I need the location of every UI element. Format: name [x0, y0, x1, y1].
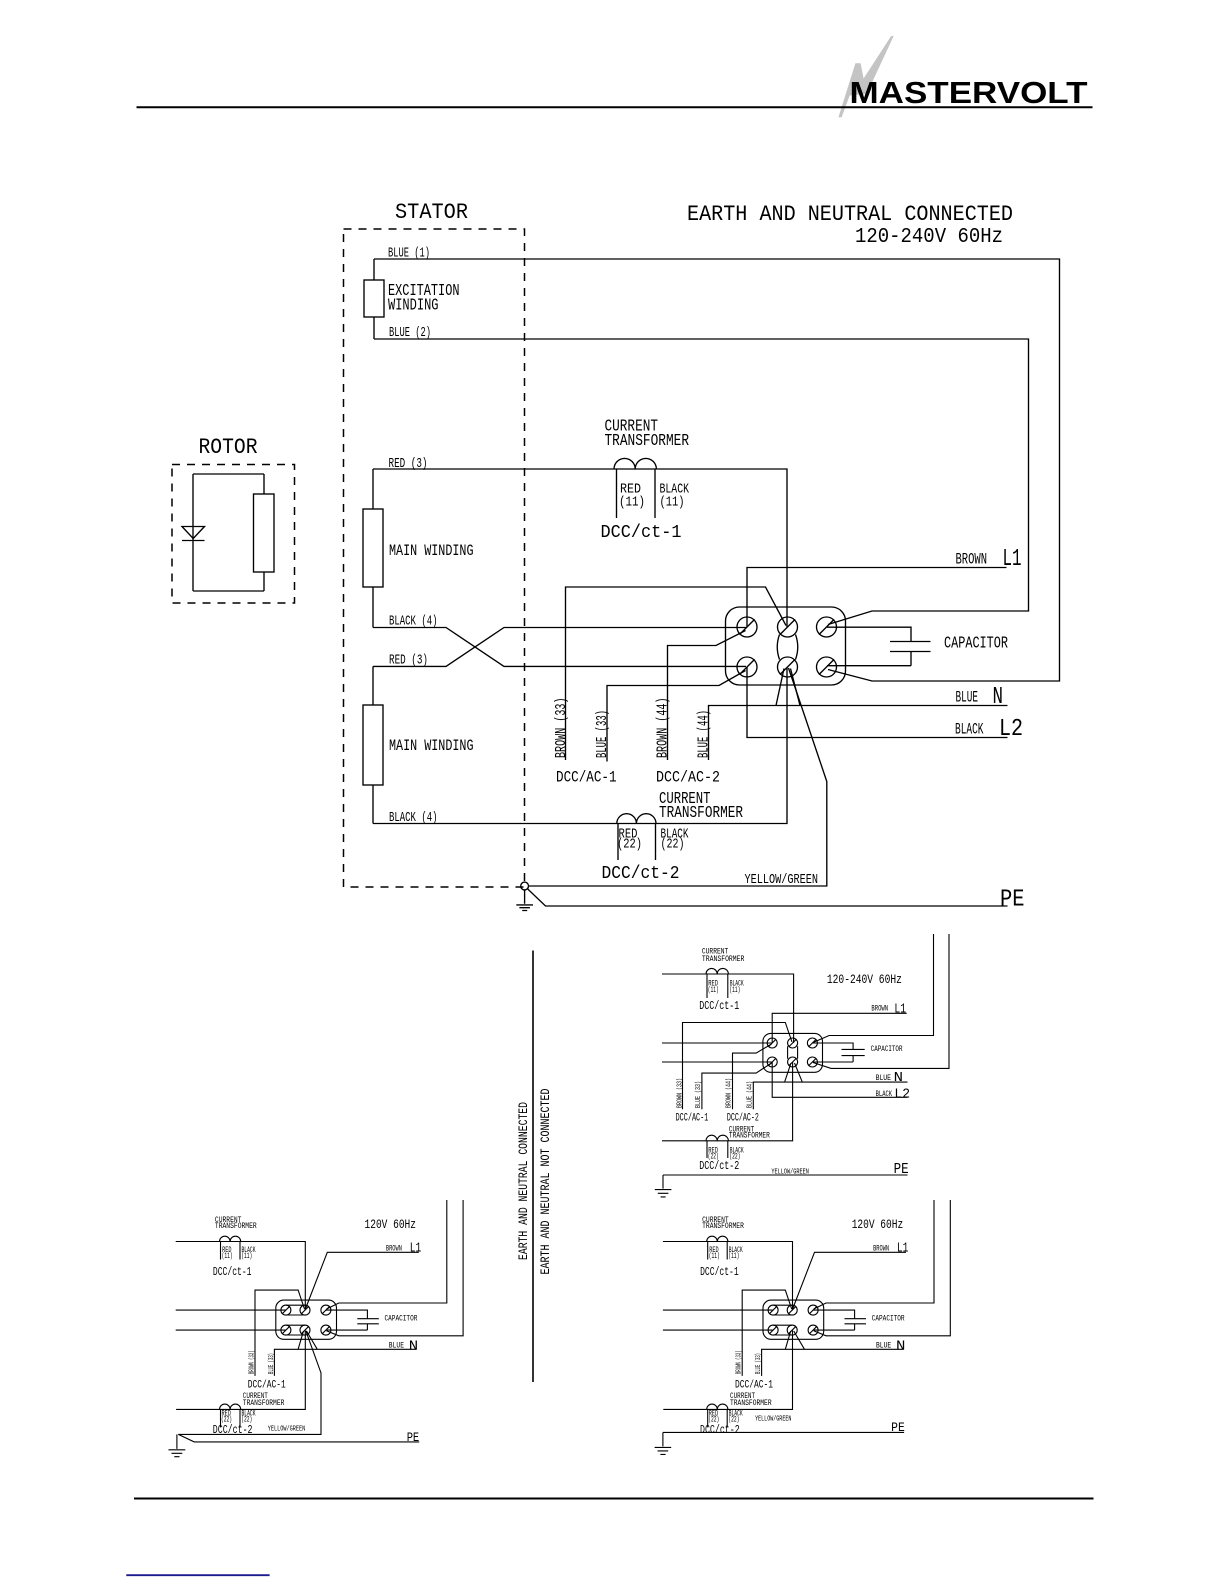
svg-text:DCC/ct-2: DCC/ct-2 — [213, 1423, 253, 1437]
svg-text:PE: PE — [894, 1162, 909, 1178]
svg-text:PE: PE — [407, 1430, 420, 1445]
svg-text:BROWN: BROWN — [386, 1244, 402, 1253]
svg-text:TRANSFORMER: TRANSFORMER — [659, 803, 743, 822]
svg-text:L1: L1 — [1003, 546, 1022, 573]
svg-text:N: N — [409, 1339, 418, 1354]
svg-text:L1: L1 — [410, 1241, 422, 1256]
svg-text:BLUE (33): BLUE (33) — [594, 710, 611, 758]
svg-text:DCC/AC-1: DCC/AC-1 — [248, 1380, 286, 1392]
svg-text:CAPACITOR: CAPACITOR — [871, 1045, 903, 1054]
svg-text:BLACK: BLACK — [876, 1090, 893, 1099]
svg-text:EARTH AND NEUTRAL CONNECTED: EARTH AND NEUTRAL CONNECTED — [687, 202, 1013, 227]
svg-text:TRANSFORMER: TRANSFORMER — [243, 1400, 285, 1408]
svg-text:BLUE: BLUE — [956, 689, 979, 707]
svg-text:DCC/AC-2: DCC/AC-2 — [727, 1112, 759, 1124]
svg-text:BROWN (33): BROWN (33) — [677, 1078, 685, 1108]
svg-text:BROWN (44): BROWN (44) — [655, 698, 672, 759]
svg-text:(11): (11) — [660, 496, 685, 511]
svg-text:CAPACITOR: CAPACITOR — [385, 1314, 418, 1323]
svg-text:(11): (11) — [619, 496, 645, 511]
svg-text:(22): (22) — [617, 838, 642, 853]
svg-text:L2: L2 — [894, 1088, 910, 1103]
svg-text:120-240V 60Hz: 120-240V 60Hz — [855, 226, 1003, 249]
svg-text:CAPACITOR: CAPACITOR — [944, 634, 1008, 653]
svg-text:BLUE (44): BLUE (44) — [696, 710, 713, 758]
svg-text:DCC/ct-1: DCC/ct-1 — [601, 523, 682, 543]
svg-text:MAIN WINDING: MAIN WINDING — [389, 737, 474, 755]
svg-text:BLUE (33): BLUE (33) — [268, 1353, 276, 1374]
svg-text:DCC/ct-2: DCC/ct-2 — [699, 1159, 739, 1173]
svg-text:120-240V 60Hz: 120-240V 60Hz — [827, 973, 902, 987]
svg-text:BLUE: BLUE — [389, 1342, 404, 1351]
svg-text:(11): (11) — [241, 1253, 252, 1261]
svg-text:DCC/AC-1: DCC/AC-1 — [556, 769, 617, 787]
svg-text:YELLOW/GREEN: YELLOW/GREEN — [745, 873, 819, 888]
svg-text:N: N — [894, 1071, 903, 1086]
svg-text:TRANSFORMER: TRANSFORMER — [605, 431, 690, 450]
svg-text:TRANSFORMER: TRANSFORMER — [729, 1133, 770, 1141]
svg-text:BLUE (2): BLUE (2) — [389, 326, 431, 341]
svg-text:ROTOR: ROTOR — [199, 435, 258, 460]
svg-text:N: N — [993, 684, 1004, 711]
svg-text:(11): (11) — [708, 987, 719, 995]
svg-text:DCC/ct-2: DCC/ct-2 — [602, 864, 680, 884]
svg-text:120V 60Hz: 120V 60Hz — [365, 1218, 417, 1232]
svg-text:BROWN (44): BROWN (44) — [726, 1078, 734, 1108]
svg-text:YELLOW/GREEN: YELLOW/GREEN — [268, 1426, 306, 1434]
svg-text:(22): (22) — [661, 838, 685, 853]
svg-text:BLUE (33): BLUE (33) — [695, 1081, 703, 1108]
svg-text:(11): (11) — [222, 1253, 233, 1261]
svg-text:L2: L2 — [999, 716, 1023, 743]
svg-text:BLUE (1): BLUE (1) — [388, 247, 430, 262]
svg-text:DCC/AC-1: DCC/AC-1 — [676, 1112, 709, 1124]
svg-text:BLUE (44): BLUE (44) — [747, 1081, 755, 1108]
svg-text:(11): (11) — [729, 987, 740, 995]
svg-text:YELLOW/GREEN: YELLOW/GREEN — [771, 1169, 809, 1177]
svg-text:RED (3): RED (3) — [389, 654, 428, 669]
svg-text:YELLOW/GREEN: YELLOW/GREEN — [755, 1416, 791, 1424]
svg-text:EARTH AND NEUTRAL CONNECTED: EARTH AND NEUTRAL CONNECTED — [516, 1102, 531, 1260]
svg-text:MAIN WINDING: MAIN WINDING — [389, 542, 474, 560]
svg-text:BROWN: BROWN — [871, 1005, 888, 1014]
svg-text:TRANSFORMER: TRANSFORMER — [702, 956, 745, 964]
svg-text:DCC/ct-1: DCC/ct-1 — [699, 999, 739, 1013]
svg-text:BROWN: BROWN — [956, 551, 988, 569]
svg-text:BROWN (33): BROWN (33) — [249, 1350, 257, 1374]
svg-text:TRANSFORMER: TRANSFORMER — [215, 1223, 257, 1231]
svg-text:MASTERVOLT: MASTERVOLT — [850, 75, 1088, 110]
svg-text:BLACK: BLACK — [955, 721, 984, 739]
svg-text:STATOR: STATOR — [395, 200, 468, 225]
svg-text:PE: PE — [1000, 887, 1025, 914]
svg-text:DCC/AC-2: DCC/AC-2 — [656, 769, 720, 787]
svg-text:WINDING: WINDING — [388, 296, 439, 315]
svg-text:BLUE: BLUE — [876, 1074, 892, 1083]
svg-text:BLACK (4): BLACK (4) — [389, 615, 438, 630]
svg-text:RED (3): RED (3) — [389, 457, 428, 472]
svg-text:L1: L1 — [894, 1002, 906, 1017]
svg-text:PE: PE — [891, 1420, 905, 1435]
svg-text:EARTH AND NEUTRAL NOT CONNECTE: EARTH AND NEUTRAL NOT CONNECTED — [538, 1088, 553, 1274]
svg-text:BROWN (33): BROWN (33) — [553, 698, 570, 759]
svg-text:DCC/ct-1: DCC/ct-1 — [213, 1265, 252, 1279]
